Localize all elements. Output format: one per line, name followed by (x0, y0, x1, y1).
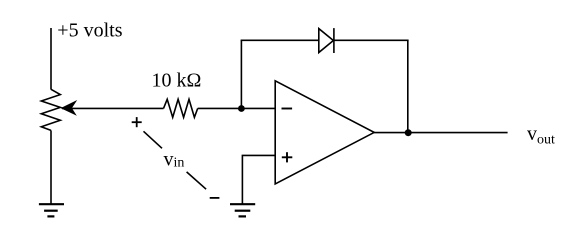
node A junction dot (238, 105, 245, 112)
svg-text:+5 volts: +5 volts (57, 20, 122, 42)
wire non-inverting input (242, 155, 275, 204)
wire wiper to resistor (62, 107, 164, 109)
wire +5V supply lead (50, 28, 52, 90)
wire feedback left vertical (240, 40, 242, 108)
v_in annotation plus sign (132, 117, 142, 127)
potentiometer wiper arrow (61, 100, 78, 116)
op-amp U1 (275, 81, 374, 184)
resistor R2 10 kOhm (164, 99, 198, 117)
wire feedback top right (334, 39, 409, 41)
wire pot bottom lead (50, 130, 52, 204)
op-amp non-inverting input plus symbol (282, 152, 293, 162)
wire feedback right vertical (407, 40, 409, 132)
diode D1 (319, 28, 334, 53)
wire resistor to op-amp inverting input (198, 107, 276, 109)
v_in annotation minus sign (210, 197, 220, 199)
op-amp inverting input minus symbol (282, 108, 293, 110)
svg-text:10 kΩ: 10 kΩ (152, 69, 202, 91)
ground right (230, 204, 255, 216)
potentiometer R1 body (41, 89, 60, 130)
wire feedback top left (241, 39, 319, 41)
node B output junction dot (405, 129, 412, 136)
v_in annotation lead 1 (144, 131, 163, 148)
wire output (374, 132, 507, 134)
v_in annotation lead 2 (187, 172, 207, 189)
ground left (39, 204, 64, 216)
